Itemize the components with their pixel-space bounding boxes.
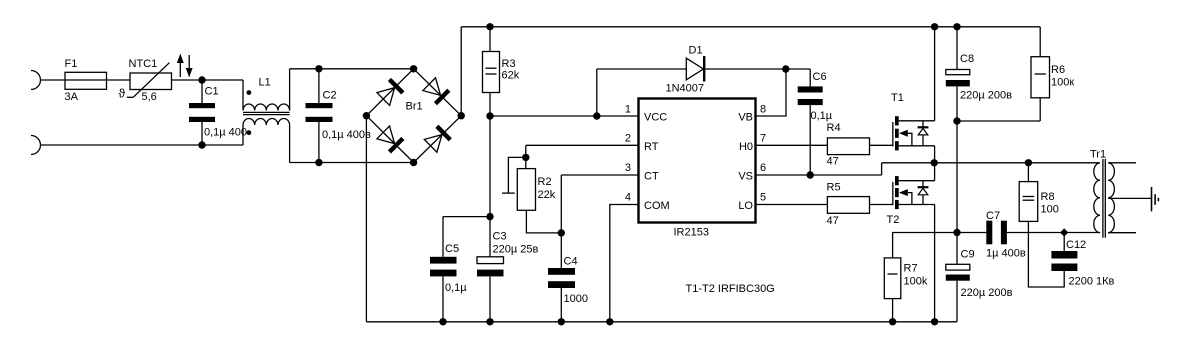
wire (597, 69, 687, 116)
op-amp U1 IR2153 body (639, 99, 756, 223)
wire CT pin3 (561, 175, 637, 233)
svg-text:R2: R2 (538, 176, 552, 188)
svg-text:100к: 100к (1051, 77, 1074, 89)
capacitor C12 (1051, 233, 1077, 272)
node: rail at R3 (486, 23, 493, 30)
capacitor C6 (798, 86, 823, 175)
svg-text:IR2153: IR2153 (674, 227, 709, 239)
node: VB boot (782, 65, 789, 72)
label 0,1µ 400в (322, 129, 371, 141)
inductor L1 top winding (243, 104, 290, 111)
svg-text:VB: VB (738, 112, 753, 124)
svg-text:6: 6 (760, 162, 766, 174)
node: C8/R6 bottom (953, 117, 960, 124)
node: bridge AC bottom (410, 159, 417, 166)
wire (1099, 162, 1102, 164)
wire (934, 205, 936, 322)
wire (242, 80, 244, 111)
label 220µ 25в (493, 243, 539, 255)
wire (489, 27, 491, 52)
wire (172, 79, 203, 81)
transformer Tr1 core (1103, 159, 1105, 238)
svg-text:C12: C12 (1066, 239, 1086, 251)
inductor L1 core (243, 112, 290, 114)
pin 6 label (760, 162, 766, 174)
wire (1064, 232, 1099, 234)
label T1 (891, 92, 904, 104)
label 47 (R5) (827, 215, 839, 227)
label F1 (65, 58, 78, 70)
pin name RT (644, 141, 659, 153)
label 0,1µ (C6) (811, 110, 833, 122)
bridge diode Br1 upper-left (377, 79, 403, 105)
pin 2 label (625, 133, 631, 145)
svg-text:T2: T2 (887, 214, 900, 226)
svg-text:R4: R4 (827, 122, 841, 134)
node: T2 source ground (931, 318, 938, 325)
wire secondary out top (1108, 162, 1136, 164)
node: C12 tap (diamond) (1060, 228, 1068, 236)
wire secondary out bottom (1108, 232, 1136, 234)
label D1 (689, 45, 703, 57)
svg-text:220µ 25в: 220µ 25в (493, 243, 539, 255)
pin 5 label (760, 192, 766, 204)
label ϑ (119, 87, 126, 101)
node: bridge AC top (410, 65, 417, 72)
pin 4 label (625, 192, 631, 204)
node: COM ground (606, 318, 613, 325)
wire (882, 163, 934, 175)
wire (957, 232, 986, 234)
svg-text:C1: C1 (205, 86, 219, 98)
label T2 (887, 214, 900, 226)
resistor R5 (827, 197, 869, 214)
label R8 (1041, 191, 1055, 203)
label C4 (564, 256, 578, 268)
svg-text:0,1µ 400в: 0,1µ 400в (322, 129, 371, 141)
wire (489, 116, 491, 217)
label 100к (1051, 77, 1074, 89)
pin 3 label (625, 162, 631, 174)
resistor R6 (1031, 27, 1050, 98)
wire (289, 125, 291, 163)
wire (757, 144, 828, 146)
node: half-bridge out VS (931, 159, 938, 166)
svg-text:C3: C3 (493, 231, 507, 243)
pin name LO (738, 200, 753, 212)
label 0,1µ 400 (204, 127, 247, 139)
wire (365, 116, 367, 322)
svg-text:8: 8 (760, 104, 766, 116)
svg-text:COM: COM (644, 200, 670, 212)
svg-text:F1: F1 (65, 58, 78, 70)
svg-text:Tr1: Tr1 (1090, 149, 1106, 161)
svg-text:100: 100 (1041, 204, 1059, 216)
svg-text:RT: RT (644, 141, 659, 153)
svg-text:5,6: 5,6 (142, 91, 157, 103)
wire RT pin2 (526, 145, 638, 157)
wire (41, 144, 244, 146)
wire (705, 68, 786, 70)
transformer Tr1 primary (1094, 163, 1100, 233)
wire (934, 163, 936, 181)
input terminal J2 (neutral) (31, 136, 41, 155)
capacitor C4 (548, 233, 575, 322)
label NTC1 (129, 58, 158, 70)
svg-text:1000: 1000 (564, 293, 588, 305)
bridge diode Br1 lower-left (377, 126, 403, 152)
node: neutral at C1 (198, 141, 205, 148)
svg-text:5: 5 (760, 192, 766, 204)
node: R8 top (1025, 159, 1032, 166)
svg-text:4: 4 (625, 192, 631, 204)
svg-text:47: 47 (827, 156, 839, 168)
resistor R7 (884, 258, 901, 299)
svg-text:1µ 400в: 1µ 400в (986, 248, 1026, 260)
wire (460, 27, 462, 116)
svg-text:VS: VS (738, 171, 753, 183)
svg-text:T1-T2 IRFIBC30G: T1-T2 IRFIBC30G (686, 283, 775, 295)
label C9 (961, 249, 975, 261)
svg-text:C9: C9 (961, 249, 975, 261)
polarity dot L1 top (247, 90, 252, 95)
wire +310V rail (461, 26, 1040, 28)
node: rail at T1 drain (931, 23, 938, 30)
pin name COM (644, 200, 670, 212)
thermistor NTC1 (127, 63, 172, 98)
polarity dot L1 bottom (247, 130, 252, 135)
capacitor C3 electrolytic (477, 217, 504, 322)
label C6 (813, 71, 827, 83)
node: R2 top (522, 154, 529, 161)
node: bridge plus (458, 112, 465, 119)
svg-text:R6: R6 (1051, 64, 1065, 76)
capacitor C2 (306, 69, 333, 163)
svg-text:R8: R8 (1041, 191, 1055, 203)
svg-text:C8: C8 (960, 53, 974, 65)
node: C9 top (953, 229, 960, 236)
trimmer wiper R2 (502, 157, 526, 193)
wire (892, 299, 894, 322)
svg-text:VCC: VCC (644, 112, 667, 124)
wire H0 pin7 (637, 144, 639, 146)
svg-text:0,1µ: 0,1µ (445, 282, 467, 294)
arrow down (186, 55, 193, 78)
wire (893, 233, 957, 258)
wire (957, 98, 1040, 121)
capacitor C9 electrolytic (946, 233, 970, 322)
label 3A (65, 91, 79, 103)
svg-text:CT: CT (644, 171, 659, 183)
label 220µ 200в (C9) (961, 287, 1013, 299)
wire (289, 69, 291, 111)
pin name H0 (739, 141, 753, 153)
label IR2153 (674, 227, 709, 239)
wire (786, 69, 810, 86)
label 220µ 200в (C8) (960, 90, 1012, 102)
node: AC bottom at C2 (315, 159, 322, 166)
label 2200 1Кв (1069, 276, 1115, 288)
label C12 (1066, 239, 1086, 251)
wire (202, 79, 243, 81)
label T1-T2 IRFIBC30G (686, 283, 775, 295)
capacitor C7 (986, 221, 1007, 245)
wire ground rail (366, 321, 957, 323)
svg-text:220µ 200в: 220µ 200в (960, 90, 1012, 102)
node: C5 ground (439, 318, 446, 325)
label R6 (1051, 64, 1065, 76)
label C5 (445, 243, 459, 255)
svg-text:D1: D1 (689, 45, 703, 57)
label 47 (R4) (827, 156, 839, 168)
wire (870, 144, 893, 146)
label C1 (205, 86, 219, 98)
node: C6 at VS (807, 171, 814, 178)
svg-text:7: 7 (760, 133, 766, 145)
capacitor C5 (430, 257, 457, 322)
svg-text:R7: R7 (904, 263, 918, 275)
svg-text:1: 1 (625, 104, 631, 116)
wire VS pin6 (757, 174, 882, 176)
svg-text:C5: C5 (445, 243, 459, 255)
wire (934, 146, 936, 163)
resistor R4 (827, 138, 869, 155)
ground (chassis) (1152, 187, 1159, 211)
svg-text:2200 1Кв: 2200 1Кв (1069, 276, 1115, 288)
arrow up (177, 54, 184, 78)
node: rail at C8 (953, 23, 960, 30)
pin name VCC (644, 112, 667, 124)
label 62k (502, 70, 520, 82)
label C3 (493, 231, 507, 243)
svg-text:Br1: Br1 (406, 101, 423, 113)
bridge diode Br1 upper-right (423, 78, 449, 104)
capacitor C1 (189, 80, 215, 145)
label L1 (259, 77, 271, 89)
wire (757, 204, 828, 206)
label Br1 (406, 101, 423, 113)
resistor R8 (1019, 163, 1037, 222)
label 1µ 400в (986, 248, 1026, 260)
pin 8 label (760, 104, 766, 116)
wire VCC (490, 115, 638, 117)
label 1N4007 (666, 83, 705, 95)
svg-text:C2: C2 (323, 90, 337, 102)
svg-text:ϑ: ϑ (119, 87, 126, 101)
wire (242, 125, 244, 145)
node: line to C1 (198, 76, 205, 83)
pin name CT (644, 171, 659, 183)
node: CT / R2 / C4 (558, 229, 565, 236)
node: R7 ground (889, 318, 896, 325)
node: AC top at C2 (315, 65, 322, 72)
label 22k (538, 189, 556, 201)
transformer Tr1 secondary (1108, 163, 1114, 233)
pin 1 label (625, 104, 631, 116)
svg-text:22k: 22k (538, 189, 556, 201)
wire (489, 93, 491, 117)
label 1000 (564, 293, 588, 305)
label C7 (986, 210, 1000, 222)
pin name VB (738, 112, 753, 124)
wire (414, 116, 462, 163)
svg-text:C4: C4 (564, 256, 578, 268)
svg-text:C6: C6 (813, 71, 827, 83)
diode D1 (686, 56, 704, 82)
svg-text:3: 3 (625, 162, 631, 174)
label R7 (904, 263, 918, 275)
node: VCC (593, 112, 600, 119)
svg-text:R5: R5 (827, 182, 841, 194)
svg-text:2: 2 (625, 133, 631, 145)
svg-text:R3: R3 (502, 58, 516, 70)
svg-text:H0: H0 (739, 141, 753, 153)
wire center tap (1108, 197, 1151, 199)
svg-text:0,1µ: 0,1µ (811, 110, 833, 122)
wire VB pin8 (757, 69, 787, 116)
svg-text:62k: 62k (502, 70, 520, 82)
wire (443, 217, 490, 257)
wire (290, 68, 414, 70)
label R4 (827, 122, 841, 134)
wire (870, 204, 893, 206)
pin 7 label (760, 133, 766, 145)
capacitor C8 electrolytic (946, 27, 970, 121)
wire (366, 116, 413, 163)
bridge diode Br1 lower-right (424, 126, 450, 152)
wire (934, 27, 936, 121)
wire (107, 79, 131, 81)
label 100 (R8) (1041, 204, 1059, 216)
svg-text:100k: 100k (904, 276, 928, 288)
transistor T2 (892, 176, 934, 209)
label C8 (960, 53, 974, 65)
node: bridge minus (363, 112, 370, 119)
svg-text:47: 47 (827, 215, 839, 227)
label 100k (904, 276, 928, 288)
svg-text:NTC1: NTC1 (129, 58, 158, 70)
node: C4 ground (558, 318, 565, 325)
wire (414, 69, 462, 116)
svg-text:L1: L1 (259, 77, 271, 89)
pin name VS (738, 171, 753, 183)
wire COM pin4 (610, 205, 638, 322)
wire (1007, 232, 1064, 234)
wire (956, 121, 958, 233)
label R3 (502, 58, 516, 70)
transistor T1 (892, 116, 934, 150)
wire (1028, 221, 1064, 287)
resistor R3 (483, 52, 500, 93)
fuse F1 (65, 72, 107, 89)
wire (526, 210, 561, 233)
svg-text:0,1µ 400: 0,1µ 400 (204, 127, 247, 139)
node: VCC filter tap (486, 213, 493, 220)
label 0,1µ (C5) (445, 282, 467, 294)
node: R3 bottom / VCC feed (486, 112, 493, 119)
label R5 (827, 182, 841, 194)
node: C3 ground (486, 318, 493, 325)
svg-text:3A: 3A (65, 91, 79, 103)
resistor R2 (517, 157, 535, 210)
svg-text:1N4007: 1N4007 (666, 83, 705, 95)
wire (1099, 232, 1102, 234)
wire (41, 79, 66, 81)
svg-text:T1: T1 (891, 92, 904, 104)
svg-text:LO: LO (738, 200, 753, 212)
inductor L1 bottom winding (243, 118, 290, 125)
label R2 (538, 176, 552, 188)
svg-text:220µ 200в: 220µ 200в (961, 287, 1013, 299)
input terminal J1 (line) (31, 71, 41, 90)
svg-text:C7: C7 (986, 210, 1000, 222)
wire (1028, 162, 1099, 164)
label C2 (323, 90, 337, 102)
label 5,6 (142, 91, 157, 103)
wire (290, 162, 414, 164)
wire (935, 162, 1029, 164)
wire (366, 69, 413, 116)
label Tr1 (1090, 149, 1106, 161)
